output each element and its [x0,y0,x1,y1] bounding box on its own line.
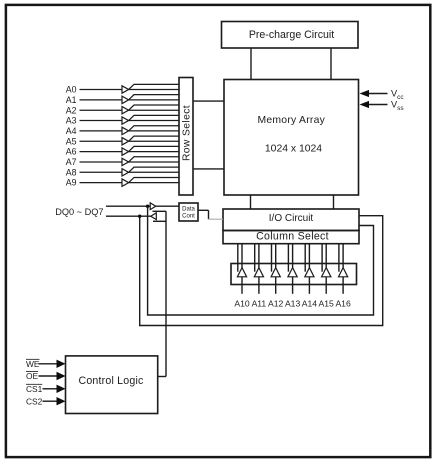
svg-text:Column Select: Column Select [256,231,329,243]
svg-text:A1: A1 [66,95,77,105]
svg-text:DQ0 ~ DQ7: DQ0 ~ DQ7 [55,207,103,217]
svg-text:Data: Data [182,207,195,213]
svg-text:1024 x 1024: 1024 x 1024 [265,144,322,155]
svg-text:I/O Circuit: I/O Circuit [269,213,314,224]
svg-text:A0: A0 [66,85,77,95]
svg-text:A16: A16 [335,299,351,309]
svg-text:A2: A2 [66,105,77,115]
svg-text:OE: OE [26,371,39,381]
svg-text:Vss: Vss [391,100,404,112]
svg-text:Cont: Cont [182,214,195,220]
svg-text:A14: A14 [302,299,318,309]
svg-text:A13: A13 [285,299,301,309]
svg-text:Pre-charge Circuit: Pre-charge Circuit [249,29,334,41]
svg-text:A5: A5 [66,136,77,146]
svg-text:A4: A4 [66,126,77,136]
svg-text:A6: A6 [66,147,77,157]
svg-text:A11: A11 [252,299,267,309]
svg-text:A3: A3 [66,116,77,126]
svg-text:A9: A9 [66,178,77,188]
svg-text:Memory Array: Memory Array [257,115,325,126]
svg-text:A7: A7 [66,157,77,167]
svg-text:CS1: CS1 [26,384,43,394]
svg-text:WE: WE [26,359,40,369]
svg-text:CS2: CS2 [26,396,43,406]
svg-text:Control Logic: Control Logic [78,375,144,387]
svg-text:A15: A15 [319,299,335,309]
svg-text:A10: A10 [234,299,250,309]
svg-text:A8: A8 [66,167,77,177]
svg-text:Row Select: Row Select [182,105,193,161]
svg-text:A12: A12 [268,299,284,309]
